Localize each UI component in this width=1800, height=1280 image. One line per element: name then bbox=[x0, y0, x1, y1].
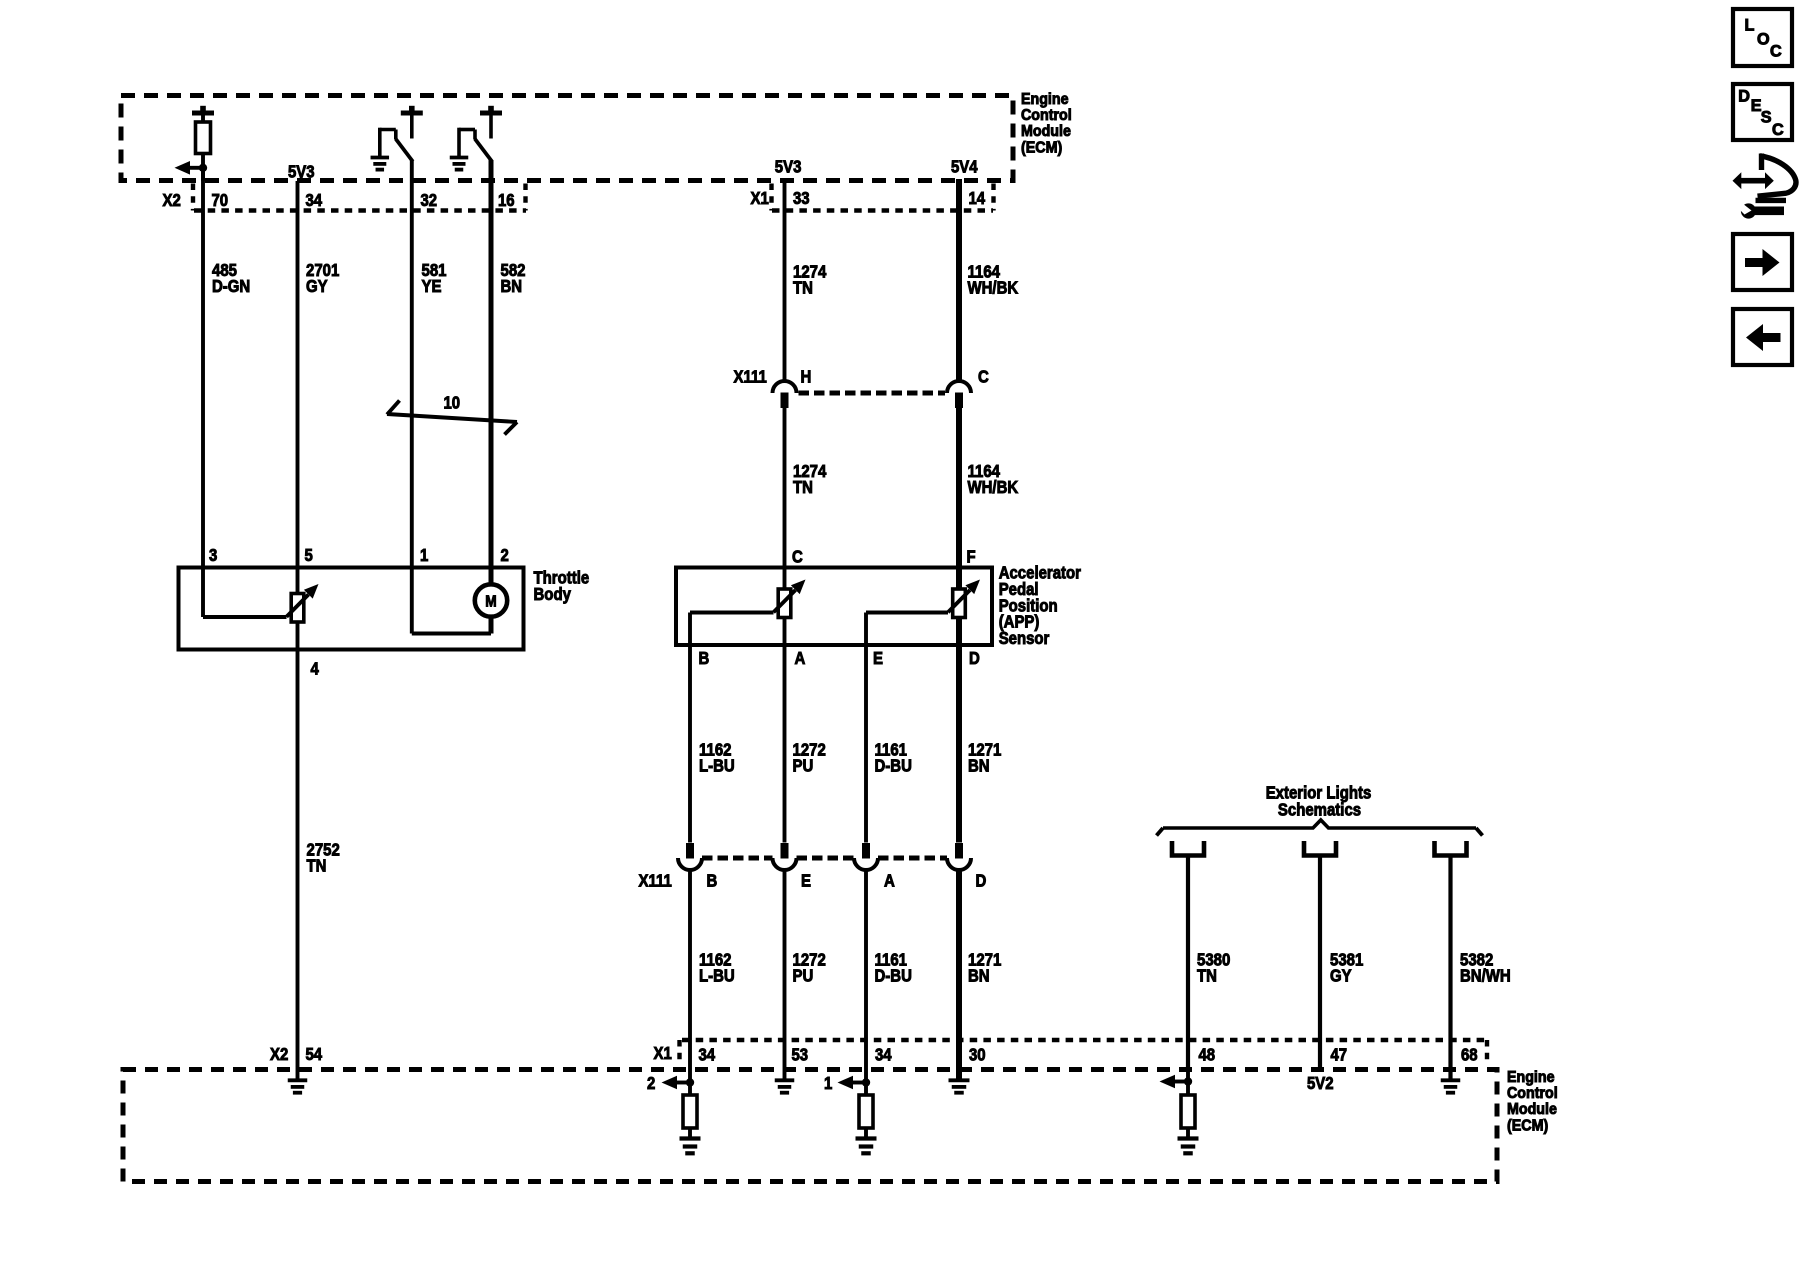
Throttle Body box bbox=[179, 568, 524, 650]
ground pin 30 bbox=[956, 1070, 962, 1081]
svg-text:D-GN: D-GN bbox=[212, 276, 250, 296]
sense resistor pin 48 bbox=[1186, 1070, 1190, 1096]
svg-text:C: C bbox=[1770, 43, 1782, 61]
wire C to A internal bbox=[783, 568, 787, 590]
svg-text:GY: GY bbox=[1330, 966, 1352, 986]
connector X111 pin C bbox=[947, 381, 971, 393]
ground pin 48 bbox=[1178, 1136, 1199, 1140]
off-page connector 5381 bbox=[1304, 841, 1336, 856]
icon arrow prev bbox=[1733, 309, 1792, 365]
svg-text:PU: PU bbox=[793, 966, 814, 986]
ground pin 68 bbox=[1448, 1070, 1452, 1081]
svg-text:GY: GY bbox=[306, 276, 328, 296]
svg-text:E: E bbox=[801, 871, 811, 891]
connector X111 pin H bbox=[773, 381, 797, 393]
wire 1274 TN bbox=[783, 179, 787, 382]
svg-text:Body: Body bbox=[534, 584, 572, 604]
wire 581 YE bbox=[410, 160, 414, 569]
svg-text:X2: X2 bbox=[270, 1044, 288, 1064]
svg-text:M: M bbox=[485, 594, 496, 611]
svg-text:C: C bbox=[978, 367, 989, 387]
connector strip X2 bbox=[194, 208, 526, 212]
svg-text:Control: Control bbox=[1021, 107, 1072, 124]
switch blade bbox=[475, 139, 492, 162]
svg-text:5V3: 5V3 bbox=[288, 162, 315, 182]
wire 1162 L-BU bbox=[688, 645, 692, 843]
svg-text:Engine: Engine bbox=[1507, 1069, 1555, 1086]
ECM bottom dashed box bbox=[123, 1070, 1497, 1182]
svg-text:33: 33 bbox=[793, 188, 810, 208]
wire 582 BN bbox=[489, 160, 494, 585]
svg-text:47: 47 bbox=[1331, 1045, 1348, 1065]
svg-text:O: O bbox=[1757, 31, 1770, 49]
svg-text:X111: X111 bbox=[734, 367, 768, 387]
harness count 10 bbox=[387, 414, 517, 422]
connector X111 pin E bbox=[781, 843, 789, 859]
connector X111 pin D bbox=[955, 843, 963, 859]
TP sensor wiper lead bbox=[201, 568, 205, 618]
ground pin 34b bbox=[856, 1136, 877, 1140]
wire pot to pin 4 bbox=[296, 622, 300, 1070]
power terminal bbox=[480, 111, 502, 116]
ECM top dashed box bbox=[121, 96, 1013, 181]
svg-text:68: 68 bbox=[1461, 1045, 1478, 1065]
svg-text:14: 14 bbox=[969, 188, 986, 208]
svg-text:34: 34 bbox=[306, 190, 323, 210]
svg-text:Engine: Engine bbox=[1021, 91, 1069, 108]
svg-text:34: 34 bbox=[699, 1045, 716, 1065]
svg-text:D-BU: D-BU bbox=[875, 756, 912, 776]
svg-text:32: 32 bbox=[421, 190, 438, 210]
svg-text:30: 30 bbox=[969, 1045, 986, 1065]
svg-text:X111: X111 bbox=[639, 871, 673, 891]
svg-text:TN: TN bbox=[307, 856, 327, 876]
wire 1271 BN lower bbox=[956, 869, 962, 1070]
APP potentiometer 1 bbox=[690, 611, 774, 615]
APP sensor box bbox=[676, 568, 992, 646]
svg-text:A: A bbox=[795, 648, 806, 668]
wire 1161 D-BU lower bbox=[864, 869, 868, 1070]
svg-text:D: D bbox=[1738, 88, 1750, 106]
wire 1164 WH/BK bbox=[956, 179, 962, 382]
APP pot 1 wiper wire bbox=[688, 613, 692, 646]
svg-text:L-BU: L-BU bbox=[699, 756, 735, 776]
wire 1274 TN lower bbox=[783, 408, 787, 569]
svg-text:F: F bbox=[967, 547, 976, 567]
pull-up resistor (pin 70) bbox=[192, 111, 214, 116]
svg-text:B: B bbox=[699, 648, 710, 668]
svg-text:H: H bbox=[801, 367, 812, 387]
svg-text:C: C bbox=[1772, 121, 1784, 139]
svg-text:(ECM): (ECM) bbox=[1507, 1117, 1548, 1134]
svg-text:5V2: 5V2 bbox=[1307, 1073, 1334, 1093]
wire 5380 TN bbox=[1186, 856, 1190, 1070]
svg-text:X1: X1 bbox=[654, 1043, 673, 1063]
svg-text:L-BU: L-BU bbox=[699, 966, 735, 986]
svg-text:TN: TN bbox=[1197, 966, 1217, 986]
connector strip X1 bottom bbox=[682, 1038, 1488, 1042]
APP potentiometer 2 bbox=[866, 611, 948, 615]
svg-text:X1: X1 bbox=[751, 188, 770, 208]
wire 5382 BN/WH bbox=[1448, 856, 1452, 1070]
svg-text:L: L bbox=[1745, 17, 1755, 35]
svg-text:48: 48 bbox=[1199, 1045, 1216, 1065]
wire 1161 D-BU bbox=[864, 645, 868, 843]
icon DESC bbox=[1733, 84, 1792, 140]
ground pin 53 bbox=[783, 1070, 787, 1081]
svg-text:A: A bbox=[884, 871, 895, 891]
wire 1271 BN bbox=[956, 645, 962, 843]
svg-text:5V4: 5V4 bbox=[951, 157, 978, 177]
brace bbox=[1163, 820, 1476, 828]
wire 2701 GY bbox=[296, 181, 300, 593]
svg-text:34: 34 bbox=[875, 1045, 892, 1065]
svg-text:5: 5 bbox=[305, 545, 314, 565]
svg-text:E: E bbox=[873, 648, 883, 668]
svg-text:Module: Module bbox=[1021, 123, 1071, 140]
svg-text:TN: TN bbox=[793, 278, 813, 298]
connector strip X1 bbox=[772, 208, 993, 212]
svg-text:S: S bbox=[1761, 108, 1772, 126]
svg-text:4: 4 bbox=[311, 659, 320, 679]
svg-text:3: 3 bbox=[209, 545, 218, 565]
svg-text:D: D bbox=[976, 871, 987, 891]
signal arrow (pin 70) bbox=[189, 166, 203, 170]
svg-text:Module: Module bbox=[1507, 1101, 1557, 1118]
off-page connector 5380 bbox=[1172, 841, 1204, 856]
svg-text:16: 16 bbox=[498, 190, 515, 210]
svg-text:PU: PU bbox=[793, 756, 814, 776]
inline harness dashes bbox=[799, 391, 946, 396]
svg-text:WH/BK: WH/BK bbox=[968, 477, 1019, 497]
svg-text:2: 2 bbox=[501, 545, 509, 565]
inline harness dashes lower bbox=[702, 856, 773, 861]
icon LOC bbox=[1733, 9, 1792, 66]
wire 1272 PU lower bbox=[783, 869, 787, 1070]
svg-text:YE: YE bbox=[422, 276, 442, 296]
svg-text:53: 53 bbox=[792, 1045, 809, 1065]
svg-text:5V3: 5V3 bbox=[775, 157, 802, 177]
sense resistor pin 34 bbox=[688, 1070, 692, 1096]
wire F to D internal bbox=[956, 618, 962, 646]
svg-text:BN/WH: BN/WH bbox=[1460, 966, 1511, 986]
svg-text:TN: TN bbox=[793, 477, 813, 497]
sense resistor pin 34b bbox=[864, 1070, 868, 1096]
svg-text:BN: BN bbox=[968, 966, 990, 986]
svg-text:54: 54 bbox=[306, 1044, 323, 1064]
svg-text:2: 2 bbox=[647, 1073, 655, 1093]
ground X2-54 bbox=[296, 1070, 300, 1081]
svg-text:10: 10 bbox=[444, 393, 461, 413]
svg-text:70: 70 bbox=[212, 190, 229, 210]
svg-text:D: D bbox=[969, 648, 980, 668]
throttle motor M bbox=[475, 584, 507, 616]
svg-text:WH/BK: WH/BK bbox=[968, 278, 1019, 298]
svg-text:Control: Control bbox=[1507, 1085, 1558, 1102]
throttle position potentiometer bbox=[203, 615, 287, 619]
svg-text:(ECM): (ECM) bbox=[1021, 139, 1062, 156]
ground pin 34 bbox=[680, 1136, 701, 1140]
ground bbox=[371, 156, 390, 160]
svg-text:B: B bbox=[707, 871, 718, 891]
svg-text:BN: BN bbox=[501, 276, 523, 296]
icon arrow next bbox=[1733, 234, 1792, 290]
power terminal bbox=[401, 111, 423, 116]
connector X111 pin B bbox=[686, 843, 694, 859]
svg-text:D-BU: D-BU bbox=[875, 966, 912, 986]
ground bbox=[450, 156, 469, 160]
svg-text:BN: BN bbox=[968, 756, 990, 776]
off-page connector 5382 bbox=[1435, 841, 1467, 856]
svg-text:1: 1 bbox=[824, 1073, 833, 1093]
svg-text:1: 1 bbox=[420, 545, 429, 565]
icon jump-to-wiring bbox=[1733, 154, 1796, 219]
wire 1164 WH/BK lower bbox=[956, 408, 962, 589]
svg-text:C: C bbox=[792, 547, 803, 567]
svg-text:X2: X2 bbox=[163, 190, 181, 210]
connector X111 pin A bbox=[862, 843, 870, 859]
svg-text:Schematics: Schematics bbox=[1278, 800, 1361, 820]
motor feed wire bbox=[410, 568, 414, 634]
wire 5381 GY bbox=[1318, 856, 1322, 1070]
APP pot 2 wiper wire bbox=[864, 613, 868, 646]
wire 485 D-GN bbox=[201, 168, 205, 569]
switch blade bbox=[396, 139, 413, 162]
svg-text:Sensor: Sensor bbox=[999, 628, 1050, 648]
wire 1162 L-BU lower bbox=[688, 869, 692, 1070]
wire 1272 PU bbox=[783, 645, 787, 843]
